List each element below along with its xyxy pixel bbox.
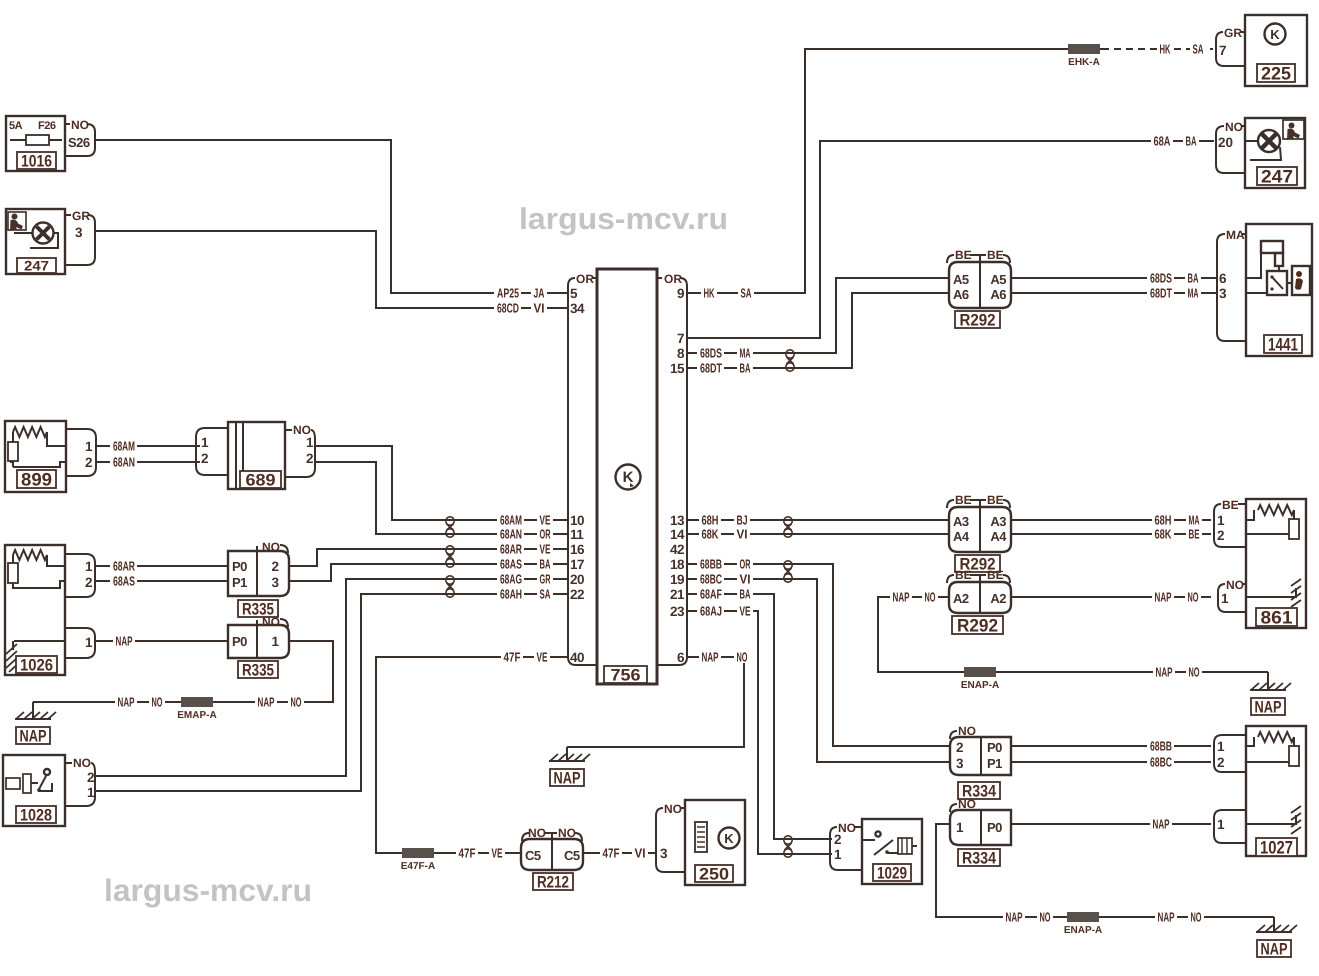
- svg-text:GR: GR: [1224, 26, 1242, 40]
- svg-text:68DS: 68DS: [1150, 270, 1172, 285]
- svg-text:2: 2: [87, 770, 94, 785]
- wire labels NAP-NO at ECU pin 6: [699, 650, 721, 663]
- svg-text:VE: VE: [740, 603, 751, 618]
- sensor 899: [5, 421, 66, 492]
- splice ENAP-A bottom: [1067, 912, 1099, 922]
- svg-text:VI: VI: [737, 526, 748, 541]
- svg-text:68AN: 68AN: [113, 454, 135, 469]
- svg-text:899: 899: [21, 469, 52, 489]
- svg-text:K: K: [724, 831, 734, 846]
- wire 68AH-SA: sensor 1028 pin 1 to ECU 756 pin 22: [95, 594, 568, 791]
- svg-text:68AH: 68AH: [500, 586, 522, 601]
- pin 20 bracket of unit 247 right with NO label: [1216, 120, 1245, 173]
- svg-text:47F: 47F: [504, 649, 521, 664]
- lower pin 1 bracket of sensor 1026: [65, 628, 95, 658]
- right pin bracket of ECU 756 with OR label and pins 9,7,8,15,13,14,42,18,19,21,23,6: [657, 272, 687, 665]
- svg-text:15: 15: [670, 361, 685, 376]
- inertia switch 1028: [3, 755, 65, 826]
- wire labels 68AR-VE at ECU pin 16: [497, 542, 524, 555]
- svg-text:P0: P0: [232, 559, 247, 574]
- svg-text:A3: A3: [990, 514, 1006, 529]
- svg-text:P0: P0: [987, 820, 1002, 835]
- svg-text:1: 1: [956, 820, 964, 835]
- svg-text:13: 13: [670, 513, 685, 528]
- svg-text:A2: A2: [953, 591, 969, 606]
- svg-text:1: 1: [834, 847, 842, 862]
- wire NO net S26: fuse 1016 to ECU 756 pin 5: [95, 140, 568, 293]
- wire NAP: connector R334 lower P0 to unit 1027 pin 1 lower: [1011, 823, 1211, 825]
- pins 1,2 bracket of unit 1027: [1214, 735, 1246, 772]
- svg-text:1: 1: [85, 559, 93, 574]
- sensor 1026: [5, 545, 65, 675]
- svg-text:2: 2: [271, 559, 279, 574]
- svg-text:A5: A5: [953, 272, 969, 287]
- svg-text:1: 1: [1221, 591, 1229, 606]
- wire NAP-NO: connector R292 A2 to unit 861 pin 1 lower: [1011, 596, 1211, 598]
- svg-text:MA: MA: [1189, 512, 1200, 527]
- wire label 68BC at unit 1027 pin 2: [1147, 756, 1174, 769]
- svg-text:C5: C5: [525, 848, 541, 863]
- svg-text:BE: BE: [987, 493, 1004, 507]
- svg-text:250: 250: [699, 864, 729, 883]
- svg-text:EMAP-A: EMAP-A: [177, 710, 216, 721]
- wire labels NAP-NO left of splice EMAP-A: [115, 696, 137, 709]
- svg-text:42: 42: [670, 542, 684, 557]
- svg-text:NO: NO: [737, 649, 748, 664]
- pin 3 bracket of unit 250 with NO label: [656, 802, 685, 872]
- svg-text:47F: 47F: [459, 845, 476, 860]
- svg-text:ENAP-A: ENAP-A: [961, 680, 999, 691]
- lower pin 1 bracket of unit 1027: [1214, 810, 1246, 843]
- svg-text:68AN: 68AN: [500, 526, 522, 541]
- svg-text:NO: NO: [958, 724, 976, 738]
- wire labels 68AM-VE at ECU pin 10: [497, 514, 524, 527]
- svg-text:VI: VI: [740, 571, 751, 586]
- svg-text:68AJ: 68AJ: [700, 603, 722, 618]
- svg-text:HK: HK: [1160, 41, 1171, 56]
- svg-text:NO: NO: [1191, 909, 1202, 924]
- wire 68H-MA: connector R292 A3 to unit 861 pin 1: [1011, 519, 1211, 521]
- svg-text:5A: 5A: [9, 120, 23, 132]
- svg-text:BA: BA: [740, 586, 751, 601]
- svg-text:VE: VE: [492, 845, 503, 860]
- wire 68AM-VE: connector 689 pin 1 to ECU 756 pin 10: [315, 446, 568, 520]
- wire 68H-BJ: ECU 756 pin 13 to connector R292 A3: [686, 519, 949, 521]
- svg-text:2: 2: [956, 740, 964, 755]
- connector R335 lower: [228, 615, 289, 679]
- svg-text:VI: VI: [534, 300, 545, 315]
- lamp unit 247 right: [1245, 118, 1305, 188]
- wire labels NAP-NO right of splice ENAP-A bottom: [1155, 910, 1177, 923]
- wire labels 68K-BE at unit 861 pin 2: [1152, 528, 1174, 541]
- wire labels 68BB-OR at ECU pin 18: [697, 558, 724, 571]
- svg-text:BE: BE: [1222, 498, 1239, 512]
- svg-text:1: 1: [87, 785, 95, 800]
- heater resistor unit 1027: [1246, 726, 1306, 857]
- twisted pair wires 68DS/68DT: [786, 350, 794, 371]
- connector R292 pins A5 A6: [947, 248, 1011, 329]
- wire 68AN: sensor 899 pin 2 to connector 689 pin 2: [96, 461, 200, 463]
- svg-text:1: 1: [85, 635, 93, 650]
- wire 68AN-OR: connector 689 pin 2 to ECU 756 pin 11: [315, 462, 568, 534]
- svg-text:NO: NO: [1040, 909, 1051, 924]
- wire labels 68AH-SA at ECU pin 22: [497, 588, 524, 601]
- wire 68BB-OR: ECU 756 pin 18 to connector R334 pin 2: [686, 564, 950, 746]
- svg-text:NO: NO: [528, 826, 546, 840]
- svg-text:689: 689: [246, 470, 276, 489]
- diagnostic unit 250: [685, 800, 745, 885]
- twisted pair wires 68AR/68AS: [446, 546, 454, 567]
- svg-text:A4: A4: [953, 529, 970, 544]
- pin 7 bracket of unit 225 with GR label: [1216, 26, 1245, 66]
- svg-text:F26: F26: [38, 120, 56, 132]
- wire labels 68CD-VI at ECU pin 34: [494, 302, 521, 315]
- svg-text:18: 18: [670, 557, 685, 572]
- svg-text:2: 2: [834, 832, 842, 847]
- svg-text:EHK-A: EHK-A: [1068, 57, 1100, 68]
- svg-text:NO: NO: [664, 802, 682, 816]
- wire 68DT-BA: ECU 756 pin 15 to connector R292 A6: [686, 293, 949, 368]
- wire 68AG-GR: sensor 1028 pin 2 to ECU 756 pin 20: [95, 579, 568, 776]
- svg-text:68AS: 68AS: [113, 573, 135, 588]
- wire 68DS-BA: connector R292 A5 to unit 1441 pin 6: [1011, 277, 1217, 279]
- svg-text:NO: NO: [291, 694, 302, 709]
- svg-text:68BC: 68BC: [700, 571, 722, 586]
- svg-text:21: 21: [670, 587, 685, 602]
- svg-text:VI: VI: [635, 845, 646, 860]
- wire 68AJ-VE: ECU 756 pin 23 to switch 1029 pin 1: [686, 611, 832, 854]
- svg-text:NO: NO: [152, 694, 163, 709]
- svg-text:NO: NO: [958, 797, 976, 811]
- wire HK-SA: ECU 756 pin 9 to unit 225 pin 7 via splice EHK-A: [686, 49, 1102, 293]
- twisted pair wires 68BB/68BC: [784, 561, 792, 582]
- wire NAP-NO: connector R334 lower pin 1 to ground NAP bottom via splice ENAP-A: [936, 824, 1274, 917]
- wire labels 47F-VE at splice E47F-A: [456, 846, 478, 859]
- wire labels 68DS-BA at unit 1441 pin 6: [1147, 272, 1174, 285]
- svg-text:S26: S26: [68, 135, 90, 150]
- svg-text:R334: R334: [962, 848, 997, 867]
- svg-text:SA: SA: [540, 586, 551, 601]
- svg-text:22: 22: [570, 587, 584, 602]
- svg-text:AP25: AP25: [497, 285, 519, 300]
- svg-text:A5: A5: [990, 272, 1006, 287]
- svg-text:BE: BE: [987, 568, 1004, 582]
- svg-text:1: 1: [201, 435, 209, 450]
- svg-text:A6: A6: [990, 287, 1006, 302]
- wire labels 68BC-VI at ECU pin 19: [697, 572, 724, 585]
- svg-text:1016: 1016: [21, 151, 52, 170]
- svg-text:P0: P0: [987, 740, 1002, 755]
- svg-text:BE: BE: [955, 568, 972, 582]
- svg-text:largus-mcv.ru: largus-mcv.ru: [519, 203, 728, 236]
- svg-text:2: 2: [85, 575, 92, 590]
- wire label 68BB at unit 1027 pin 1: [1147, 740, 1174, 753]
- twisted pair wires 68AF/68AJ: [784, 836, 792, 857]
- svg-text:247: 247: [24, 257, 49, 273]
- svg-text:2: 2: [201, 451, 208, 466]
- svg-text:1026: 1026: [20, 655, 53, 674]
- svg-text:247: 247: [1261, 166, 1293, 186]
- svg-text:NAP: NAP: [554, 768, 581, 787]
- svg-text:68AM: 68AM: [113, 438, 135, 453]
- svg-text:VE: VE: [540, 541, 551, 556]
- wire labels 68K-VI at ECU pin 14: [699, 528, 721, 541]
- svg-text:7: 7: [1219, 43, 1227, 58]
- svg-text:NO: NO: [262, 540, 280, 554]
- wire 68BC: connector R334 P1 to unit 1027 pin 2: [1011, 761, 1211, 763]
- svg-text:23: 23: [670, 604, 685, 619]
- wire labels NAP-NO at splice ENAP-A middle: [1153, 666, 1175, 679]
- svg-text:E47F-A: E47F-A: [401, 861, 435, 872]
- svg-text:NO: NO: [1189, 664, 1200, 679]
- svg-text:2: 2: [1217, 755, 1225, 770]
- wire label 68AN at sensor 899 pin 2: [110, 456, 137, 469]
- wire 68AM: sensor 899 pin 1 to connector 689 pin 1: [96, 445, 200, 447]
- wire label 68AR at sensor 1026 pin 1: [110, 560, 137, 573]
- svg-text:A6: A6: [953, 287, 969, 302]
- svg-text:1: 1: [1217, 513, 1225, 528]
- wire HK-SA dashed section to unit 225 pin 7: [1102, 48, 1213, 50]
- pins 1,2 bracket of unit 861 with BE label: [1214, 498, 1246, 547]
- svg-text:68K: 68K: [1155, 526, 1172, 541]
- wire label 68AM at sensor 899 pin 1: [110, 440, 137, 453]
- svg-text:GR: GR: [540, 571, 551, 586]
- svg-text:6: 6: [1219, 271, 1227, 286]
- svg-text:OR: OR: [740, 556, 751, 571]
- svg-text:NAP: NAP: [1255, 697, 1282, 716]
- wire labels 68H-BJ at ECU pin 13: [699, 514, 721, 527]
- svg-text:1: 1: [271, 634, 279, 649]
- svg-text:1027: 1027: [1260, 837, 1293, 857]
- wire labels 68H-MA at unit 861 pin 1: [1152, 514, 1174, 527]
- svg-text:C5: C5: [564, 848, 580, 863]
- svg-text:VE: VE: [537, 649, 548, 664]
- svg-text:BE: BE: [955, 248, 972, 262]
- svg-text:68AR: 68AR: [500, 541, 522, 556]
- svg-text:MA: MA: [1188, 285, 1199, 300]
- svg-text:3: 3: [956, 756, 964, 771]
- wire 68AS-BA: connector R335 pin 3 to ECU 756 pin 17: [289, 564, 568, 581]
- wire labels NAP-NO at unit 861 lower pin: [1152, 590, 1174, 603]
- svg-text:9: 9: [677, 286, 684, 301]
- svg-text:1: 1: [1217, 817, 1225, 832]
- svg-text:68A: 68A: [1154, 133, 1171, 148]
- wire labels 68A-BA at unit 247 right: [1151, 134, 1173, 147]
- pins 1,2 left bracket of connector 689: [196, 428, 228, 475]
- svg-text:68AR: 68AR: [113, 558, 135, 573]
- twisted pair wires 68AM/68AN: [446, 517, 454, 537]
- svg-text:7: 7: [677, 331, 684, 346]
- svg-text:OR: OR: [540, 526, 551, 541]
- instrument unit 225: [1245, 15, 1307, 86]
- wire labels HK-SA on dashed wire to unit 225: [1157, 42, 1173, 55]
- wire labels NAP-NO left of splice ENAP-A bottom: [1003, 910, 1025, 923]
- svg-text:R335: R335: [242, 660, 274, 679]
- svg-text:68H: 68H: [702, 512, 719, 527]
- pins 2,1 bracket of switch 1029 with NO label: [830, 821, 862, 870]
- wire 47F-VI: connector R212 to unit 250 pin 3: [583, 852, 657, 854]
- svg-text:68AG: 68AG: [500, 571, 522, 586]
- wire 68A-BA: ECU 756 pin 7 to lamp unit 247 right pin 20: [686, 141, 1214, 338]
- svg-text:20: 20: [1218, 135, 1233, 150]
- wire 68DT-MA: connector R292 A6 to unit 1441 pin 3: [1011, 292, 1217, 294]
- ground NAP left: [32, 702, 34, 719]
- svg-text:2: 2: [1217, 528, 1225, 543]
- splice ENAP-A middle: [964, 667, 996, 677]
- svg-text:NO: NO: [71, 118, 89, 132]
- pins 1,2 bracket of sensor 1026: [65, 554, 95, 597]
- wire labels 68DS-MA at ECU pin 8: [697, 346, 724, 359]
- wire labels NAP-NO right of splice EMAP-A: [255, 696, 277, 709]
- svg-text:A4: A4: [990, 529, 1007, 544]
- ground NAP middle right: [1267, 672, 1269, 690]
- wire 47F-VE: ECU 756 pin 40 to connector R212 via splice E47F-A: [376, 657, 568, 853]
- wire labels AP25-JA at ECU pin 5: [494, 286, 521, 299]
- wire label 68AS at sensor 1026 pin 2: [110, 574, 137, 587]
- connector R292 pin A2: [947, 568, 1011, 635]
- svg-text:68K: 68K: [702, 526, 719, 541]
- svg-text:6: 6: [677, 650, 685, 665]
- svg-text:2: 2: [85, 455, 92, 470]
- wire labels NAP-NO at connector R292 A2: [890, 590, 912, 603]
- wire NAP-NO: connector R335 lower pin 1 to ground NAP left via splice EMAP-A: [33, 641, 333, 702]
- svg-text:3: 3: [660, 846, 668, 861]
- svg-text:SA: SA: [741, 285, 752, 300]
- pins 1,2 bracket of sensor 899: [66, 429, 96, 476]
- wire labels 68DT-BA at ECU pin 15: [697, 362, 724, 375]
- wire 68BC-VI: ECU 756 pin 19 to connector R334 pin 3: [686, 579, 950, 762]
- svg-text:NO: NO: [1188, 589, 1199, 604]
- wire NAP: sensor 1026 to connector R335 lower P0: [96, 640, 228, 642]
- svg-text:16: 16: [570, 542, 585, 557]
- wire 68AR: sensor 1026 pin 1 to connector R335 P0: [96, 565, 228, 567]
- svg-text:OR: OR: [664, 272, 682, 286]
- svg-text:68BB: 68BB: [700, 556, 722, 571]
- splice E47F-A: [402, 848, 434, 858]
- pin S26 bracket of unit 1016: [65, 118, 95, 156]
- connector R334 lower: [950, 797, 1011, 867]
- wire labels 68AJ-VE at ECU pin 23: [697, 604, 724, 617]
- wire label NAP at unit 1027 lower pin: [1150, 818, 1172, 831]
- svg-text:BA: BA: [740, 360, 751, 375]
- connector R212: [521, 826, 583, 891]
- svg-text:1029: 1029: [877, 863, 907, 882]
- svg-text:861: 861: [1261, 607, 1293, 627]
- svg-text:NAP: NAP: [1158, 909, 1175, 924]
- svg-text:5: 5: [570, 286, 578, 301]
- pin 3 bracket of unit 247 left: [65, 209, 95, 265]
- svg-text:NO: NO: [262, 615, 280, 629]
- lower pin 1 bracket of unit 861 with NO label: [1218, 578, 1246, 612]
- svg-text:68CD: 68CD: [497, 300, 519, 315]
- svg-text:BJ: BJ: [737, 512, 748, 527]
- wire 68K-VI: ECU 756 pin 14 to connector R292 A4: [686, 533, 949, 535]
- wire GR net 68CD: lamp unit 247 left to ECU 756 pin 34: [95, 231, 568, 308]
- svg-text:1: 1: [306, 435, 314, 450]
- svg-text:68DS: 68DS: [700, 345, 722, 360]
- svg-text:BA: BA: [1186, 133, 1197, 148]
- svg-text:P0: P0: [232, 634, 247, 649]
- svg-text:756: 756: [611, 665, 641, 684]
- svg-text:MA: MA: [740, 345, 751, 360]
- svg-text:A3: A3: [953, 514, 969, 529]
- svg-text:BA: BA: [1188, 270, 1199, 285]
- fuse F26 unit 1016: [6, 116, 65, 171]
- svg-text:34: 34: [570, 301, 585, 316]
- wire labels 68DT-MA at unit 1441 pin 3: [1147, 286, 1174, 299]
- connector 689: [228, 422, 285, 489]
- svg-text:NAP: NAP: [1006, 909, 1023, 924]
- svg-text:1: 1: [1217, 739, 1225, 754]
- svg-text:largus-mcv.ru: largus-mcv.ru: [104, 873, 312, 908]
- wire 68AF-BA: ECU 756 pin 21 to switch 1029 pin 2: [686, 594, 832, 839]
- svg-text:SA: SA: [1193, 41, 1204, 56]
- svg-text:225: 225: [1261, 63, 1291, 83]
- svg-text:BE: BE: [955, 493, 972, 507]
- ground NAP bottom right: [1273, 917, 1275, 932]
- svg-text:K: K: [1270, 27, 1280, 42]
- wire labels 68AS-BA at ECU pin 17: [497, 558, 524, 571]
- svg-text:NAP: NAP: [20, 726, 47, 745]
- svg-text:3: 3: [75, 225, 83, 240]
- svg-text:NAP: NAP: [893, 589, 910, 604]
- pins 1,2 right bracket of connector 689 with NO label: [285, 429, 292, 431]
- lamp unit 247 left: [6, 209, 65, 274]
- wire NAP-NO: connector R292 A2 to ground NAP via splice ENAP-A: [878, 597, 1268, 672]
- svg-text:19: 19: [670, 572, 684, 587]
- svg-text:68DT: 68DT: [700, 360, 722, 375]
- svg-text:17: 17: [570, 557, 584, 572]
- svg-text:40: 40: [570, 650, 584, 665]
- svg-text:NAP: NAP: [118, 694, 135, 709]
- svg-text:68DT: 68DT: [1150, 285, 1172, 300]
- svg-text:68AF: 68AF: [700, 586, 722, 601]
- svg-text:R292: R292: [960, 310, 996, 329]
- svg-text:68AM: 68AM: [500, 512, 522, 527]
- svg-text:68AS: 68AS: [500, 556, 522, 571]
- svg-text:BE: BE: [987, 248, 1004, 262]
- svg-text:3: 3: [1219, 286, 1227, 301]
- splice EHK-A: [1068, 44, 1100, 54]
- svg-text:P1: P1: [232, 575, 247, 590]
- svg-text:47F: 47F: [603, 845, 620, 860]
- svg-text:NAP: NAP: [1261, 939, 1288, 958]
- wire NAP-NO: ECU 756 pin 6 to ground NAP center: [567, 657, 744, 747]
- svg-text:20: 20: [570, 572, 584, 587]
- svg-text:P1: P1: [987, 756, 1002, 771]
- wire 68BB: connector R334 P0 to unit 1027 pin 1: [1011, 745, 1211, 747]
- svg-text:1: 1: [85, 439, 93, 454]
- svg-text:2: 2: [306, 451, 313, 466]
- wire 68DS-MA: ECU 756 pin 8 to connector R292 A5: [686, 278, 949, 353]
- svg-text:NAP: NAP: [116, 633, 133, 648]
- svg-text:NO: NO: [1226, 578, 1244, 592]
- splice EMAP-A: [181, 697, 213, 707]
- svg-text:68BC: 68BC: [1150, 754, 1172, 769]
- svg-text:1441: 1441: [1268, 334, 1298, 354]
- heater resistor unit 861: [1246, 499, 1306, 628]
- svg-text:R292: R292: [957, 615, 998, 635]
- svg-text:A2: A2: [990, 591, 1006, 606]
- connector R334 upper: [950, 724, 1011, 800]
- svg-text:ENAP-A: ENAP-A: [1064, 925, 1102, 936]
- svg-text:OR: OR: [576, 272, 594, 286]
- svg-text:NAP: NAP: [1155, 589, 1172, 604]
- svg-text:GR: GR: [72, 209, 90, 223]
- wire labels 68AN-OR at ECU pin 11: [497, 528, 524, 541]
- twisted pair wires 68H/68K: [784, 517, 792, 537]
- svg-text:HK: HK: [704, 285, 715, 300]
